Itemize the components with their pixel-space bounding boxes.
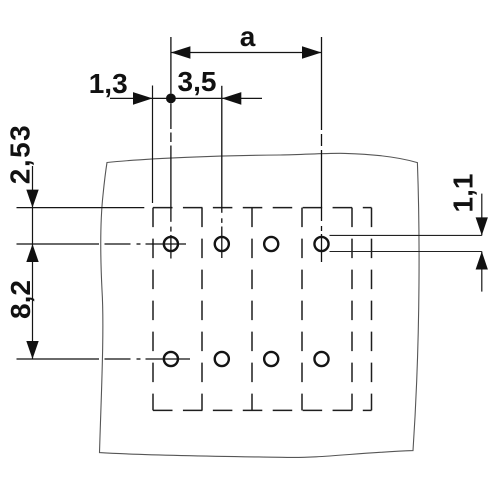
svg-text:1,3: 1,3 [89, 68, 128, 99]
svg-text:8,2: 8,2 [5, 280, 36, 319]
svg-text:a: a [240, 21, 256, 52]
svg-text:1,1: 1,1 [448, 174, 479, 213]
svg-text:2,53: 2,53 [5, 124, 36, 185]
svg-text:3,5: 3,5 [178, 66, 217, 97]
